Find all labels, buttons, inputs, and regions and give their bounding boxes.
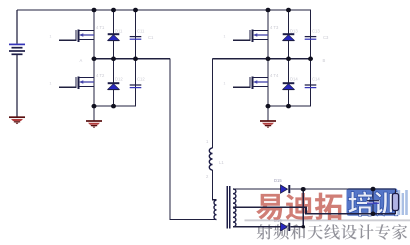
wire: node A mid rail xyxy=(94,58,170,60)
svg-text:D14: D14 xyxy=(290,77,298,82)
wire: right MOSFET column upper xyxy=(267,10,269,59)
transformer T1 primary winding xyxy=(214,200,217,219)
wire: secondary bottom tap xyxy=(233,226,281,228)
transistor Q2 (lower left MOSFET) xyxy=(59,57,94,89)
wire: left bottom rail xyxy=(94,106,136,121)
svg-text:L1: L1 xyxy=(219,160,224,165)
svg-text:D15: D15 xyxy=(274,178,282,183)
svg-text:C3: C3 xyxy=(323,35,329,40)
svg-text:C11: C11 xyxy=(137,29,145,34)
svg-text:B: B xyxy=(323,58,326,63)
diode D16 (bottom rectifier) xyxy=(281,223,290,231)
wire: rectifier join vertical xyxy=(302,189,304,227)
svg-text:4 T2: 4 T2 xyxy=(96,73,105,78)
svg-text:1: 1 xyxy=(224,35,226,39)
svg-text:C1: C1 xyxy=(148,35,154,40)
component designator labels (faint) xyxy=(96,25,329,223)
capacitor C11 xyxy=(130,37,142,40)
svg-text:D12: D12 xyxy=(115,77,123,82)
watermark logo text 易迪拓 (red) xyxy=(256,193,342,221)
wire: center tap return xyxy=(233,207,396,214)
wire: right bottom rail xyxy=(268,106,311,121)
watermark blue box with 培训 xyxy=(347,188,408,216)
wire: left MOSFET column lower xyxy=(93,59,95,107)
wire: top rectifier output xyxy=(290,188,395,190)
ground (battery) xyxy=(9,117,25,124)
capacitor C14 xyxy=(305,85,317,88)
wire: right MOSFET column lower xyxy=(267,59,269,107)
svg-text:A: A xyxy=(80,58,83,63)
battery V1 xyxy=(9,10,25,117)
wire: inductor to primary top xyxy=(213,170,217,200)
svg-text:4 T3: 4 T3 xyxy=(270,25,279,30)
wire: right diode column xyxy=(288,10,290,106)
svg-text:C13: C13 xyxy=(312,29,320,34)
capacitor C12 xyxy=(130,85,142,88)
svg-text:1: 1 xyxy=(50,35,52,39)
diode D11 xyxy=(108,34,120,40)
transistor Q3 (upper right MOSFET) xyxy=(233,10,268,42)
transformer T1 secondary winding xyxy=(233,189,236,227)
inductor L1 xyxy=(209,148,212,170)
capacitor C15 (output) xyxy=(367,189,379,214)
ground (right leg) xyxy=(260,121,276,128)
svg-text:4 T1: 4 T1 xyxy=(96,25,105,30)
wire: right capacitor column xyxy=(310,34,312,59)
ground (left leg) xyxy=(86,121,102,128)
watermark divider rule xyxy=(245,219,410,221)
wire: node A to primary bottom xyxy=(170,59,217,220)
junction dots right leg xyxy=(266,8,271,13)
transistor Q4 (lower right MOSFET) xyxy=(233,57,268,89)
watermark tagline 射频和天线设计专家 (gray) xyxy=(257,224,408,240)
junction dots rectifier xyxy=(301,187,306,192)
junction dots left leg xyxy=(92,8,97,13)
resistor R1 (load) xyxy=(392,189,398,214)
diode D12 xyxy=(108,83,120,89)
transistor Q1 (upper left MOSFET) xyxy=(59,10,94,42)
svg-text:D13: D13 xyxy=(290,29,298,34)
svg-text:D11: D11 xyxy=(115,29,123,34)
wire: left diode column xyxy=(113,10,115,106)
diode D14 xyxy=(283,83,295,89)
wire: node B mid rail xyxy=(213,58,311,60)
top supply rail xyxy=(17,10,311,34)
transformer T1 core xyxy=(226,186,228,229)
wire: left capacitor column xyxy=(135,10,137,59)
svg-text:4 T4: 4 T4 xyxy=(270,73,279,78)
svg-text:D16: D16 xyxy=(274,218,282,223)
diode D15 (top rectifier) xyxy=(281,185,290,193)
wire: node B down to inductor xyxy=(212,59,214,149)
capacitor C13 xyxy=(305,37,317,40)
svg-text:1: 1 xyxy=(50,82,52,86)
wire: left MOSFET column upper xyxy=(93,10,95,59)
svg-text:C12: C12 xyxy=(137,77,145,82)
diode D13 xyxy=(283,34,295,40)
svg-text:1: 1 xyxy=(224,82,226,86)
svg-text:C14: C14 xyxy=(312,77,320,82)
wire: secondary top tap xyxy=(233,188,281,190)
wire: bottom diode to join xyxy=(290,226,304,228)
